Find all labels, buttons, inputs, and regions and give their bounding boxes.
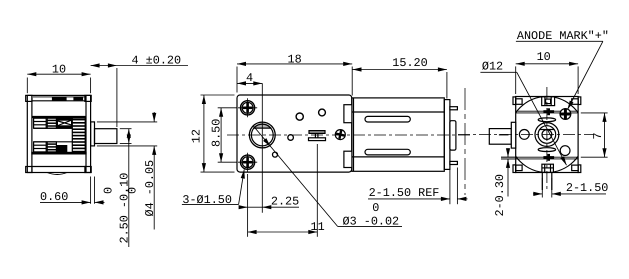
svg-text:ANODE MARK"+": ANODE MARK"+": [517, 29, 609, 43]
svg-text:4 ±0.20: 4 ±0.20: [132, 54, 182, 68]
svg-text:10: 10: [537, 50, 551, 64]
svg-text:4: 4: [246, 71, 253, 85]
svg-text:2.25: 2.25: [271, 195, 299, 209]
svg-text:2.50 -0.10: 2.50 -0.10: [118, 173, 132, 244]
svg-text:0: 0: [372, 201, 379, 215]
svg-text:7: 7: [591, 132, 605, 139]
svg-text:8.50: 8.50: [210, 119, 224, 147]
svg-text:0: 0: [102, 187, 116, 194]
svg-text:15.20: 15.20: [392, 56, 427, 70]
svg-text:10: 10: [52, 62, 66, 76]
svg-text:Ø4 -0.05: Ø4 -0.05: [143, 160, 157, 217]
svg-text:2-1.50: 2-1.50: [566, 181, 608, 195]
svg-text:Ø3 -0.02: Ø3 -0.02: [343, 215, 400, 229]
svg-text:2-1.50 REF: 2-1.50 REF: [369, 186, 440, 200]
svg-text:0.60: 0.60: [40, 190, 68, 204]
svg-text:12: 12: [190, 129, 204, 143]
svg-text:Ø12: Ø12: [482, 60, 503, 74]
svg-text:0: 0: [126, 187, 140, 194]
svg-text:2-0.30: 2-0.30: [493, 174, 507, 216]
svg-text:11: 11: [311, 220, 325, 234]
svg-text:18: 18: [288, 53, 302, 67]
svg-text:3-Ø1.50: 3-Ø1.50: [182, 193, 232, 207]
